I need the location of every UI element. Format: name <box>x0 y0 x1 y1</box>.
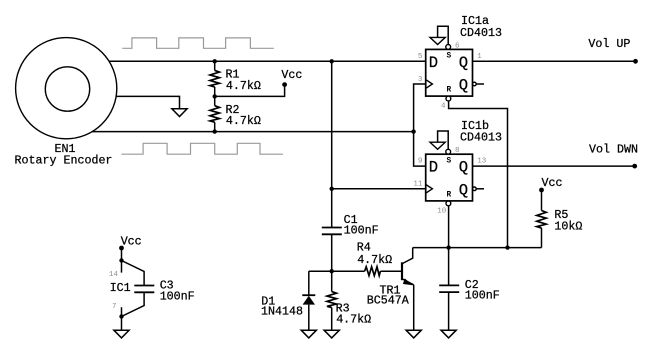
IC1 pin7 stub <box>121 307 123 316</box>
ground (TR1 emitter) <box>406 330 421 338</box>
svg-text:10: 10 <box>437 208 447 216</box>
svg-text:5: 5 <box>418 53 423 61</box>
label R4 4.7k <box>357 240 392 266</box>
svg-text:1: 1 <box>477 53 482 61</box>
flip-flop IC1a CD4013 body <box>426 49 473 96</box>
capacitor C2 <box>439 248 459 331</box>
wire IC1a Q to Vol UP <box>473 60 636 62</box>
svg-text:Vcc: Vcc <box>281 68 302 82</box>
Vcc terminal (pull-up) <box>281 68 302 87</box>
label C1 100nF <box>344 213 379 238</box>
waveform channel B (gray pulses bottom) <box>122 143 284 154</box>
svg-text:Q: Q <box>459 54 468 72</box>
junction node/C2/R10 <box>446 245 450 249</box>
label IC1b CD4013 <box>460 119 502 145</box>
junction pin14 node <box>119 258 123 262</box>
wire pin7 node to ground <box>121 317 123 331</box>
junction at IC1b clock branch <box>330 187 334 191</box>
IC1b set-tie ground flag <box>430 131 448 150</box>
svg-text:R: R <box>447 192 452 200</box>
svg-text:Q: Q <box>459 159 468 177</box>
IC1b S input bubble (pin 8) <box>446 149 451 154</box>
wire IC1a clock pin3 / IC1b D pin9 <box>414 84 426 166</box>
rotary encoder EN1 body <box>16 38 117 139</box>
svg-text:9: 9 <box>418 158 423 166</box>
wire encoder B output <box>92 131 414 133</box>
diode D1 1N4148 <box>302 271 315 330</box>
wire Vcc to pin14 node <box>121 248 123 261</box>
svg-text:6: 6 <box>455 42 460 50</box>
svg-text:11: 11 <box>413 181 423 189</box>
wire encoder common to ground <box>116 96 180 108</box>
ground (R3) <box>324 330 339 338</box>
svg-text:4.7kΩ: 4.7kΩ <box>226 114 261 128</box>
ground (IC1 pin7) <box>114 330 129 338</box>
terminal Vol UP <box>588 37 637 64</box>
junction top wire / R1 <box>213 59 217 63</box>
svg-text:D: D <box>429 54 438 72</box>
wire C1 bottom to node <box>331 234 333 271</box>
svg-text:Q: Q <box>459 181 468 199</box>
wire pin14 node to C3 <box>122 261 145 286</box>
svg-text:4.7kΩ: 4.7kΩ <box>336 312 371 326</box>
svg-text:100nF: 100nF <box>344 224 379 238</box>
svg-text:CD4013: CD4013 <box>460 131 502 145</box>
ground (C2) <box>441 330 456 338</box>
transistor TR1 BC547A <box>402 248 414 331</box>
svg-text:Vol UP: Vol UP <box>588 37 630 51</box>
svg-text:Vol DWN: Vol DWN <box>589 142 638 156</box>
junction channel B / clock vertical <box>411 129 415 133</box>
svg-text:100nF: 100nF <box>160 289 195 303</box>
resistor R4 <box>365 267 402 276</box>
resistor R2 <box>210 96 219 131</box>
label EN1 <box>55 142 76 156</box>
svg-text:R: R <box>447 87 452 95</box>
junction channel A branch <box>330 59 334 63</box>
IC1a R input bubble (pin 4) <box>446 96 451 101</box>
label R5 10k <box>554 208 582 233</box>
svg-text:D: D <box>429 159 438 177</box>
junction node/R4pin <box>505 245 509 249</box>
svg-text:4.7kΩ: 4.7kΩ <box>357 253 392 267</box>
svg-text:13: 13 <box>477 158 487 166</box>
IC1a S input bubble (pin 6) <box>446 45 451 50</box>
label R2 4.7k <box>226 103 261 128</box>
label IC1a CD4013 <box>460 14 502 40</box>
wire C3 to pin7 node <box>122 292 145 316</box>
svg-text:14: 14 <box>109 271 119 279</box>
IC1b pin numbers <box>413 147 486 215</box>
ground (encoder common) <box>172 109 187 117</box>
Vcc terminal (R5) <box>539 176 562 193</box>
capacitor C1 <box>322 228 342 235</box>
label D1 1N4148 <box>261 294 303 318</box>
junction bottom node <box>330 269 334 273</box>
IC1b Qbar bubble and stub <box>473 187 484 191</box>
capacitor C3 <box>134 286 154 293</box>
wire R1/R2 node to Vcc stub <box>215 87 285 97</box>
flip-flop IC1b CD4013 body <box>426 154 473 201</box>
label IC1 <box>110 281 131 295</box>
junction R1/R2 mid node <box>213 94 217 98</box>
waveform channel A (gray pulses top) <box>122 38 273 48</box>
svg-text:4.7kΩ: 4.7kΩ <box>226 79 261 93</box>
resistor R3 <box>327 271 336 330</box>
resistor R5 <box>537 190 546 248</box>
svg-text:S: S <box>447 158 452 166</box>
IC1 power: Vcc terminal <box>119 235 142 251</box>
wire to IC1b clock pin 11 <box>332 188 426 190</box>
IC1b R input bubble (pin 10) <box>446 201 451 206</box>
svg-text:CD4013: CD4013 <box>460 26 502 40</box>
junction bottom wire / R2 <box>213 129 217 133</box>
resistor R1 <box>210 61 219 96</box>
label R3 4.7k <box>336 302 372 327</box>
svg-text:100nF: 100nF <box>465 288 500 302</box>
svg-text:IC1: IC1 <box>110 281 131 295</box>
svg-text:10kΩ: 10kΩ <box>554 220 582 234</box>
terminal Vol DWN <box>589 142 638 168</box>
wire IC1b Q to Vol DWN <box>473 165 635 167</box>
label TR1 BC547A <box>367 284 409 308</box>
junction pin7 node <box>119 314 123 318</box>
ground (D1) <box>301 330 316 338</box>
svg-text:7: 7 <box>112 303 117 311</box>
label C3 100nF <box>160 278 195 303</box>
svg-text:Vcc: Vcc <box>121 235 142 249</box>
wire IC1b R pin10 to node <box>448 205 450 247</box>
wire branch from channel A down to C1 <box>331 61 333 227</box>
wire bottom node row (D1/R3/R4) <box>309 270 365 272</box>
wire collector node row <box>413 247 542 249</box>
label R1 4.7k <box>226 67 261 92</box>
IC1a set-tie ground flag <box>430 26 448 45</box>
svg-text:BC547A: BC547A <box>367 294 409 308</box>
svg-text:1N4148: 1N4148 <box>261 305 303 319</box>
IC1a Qbar bubble and stub <box>473 82 484 86</box>
svg-text:Q: Q <box>459 77 468 95</box>
label Rotary Encoder <box>15 153 113 167</box>
IC1a pin numbers <box>418 42 482 110</box>
svg-text:8: 8 <box>455 147 460 155</box>
label C2 100nF <box>465 278 500 303</box>
IC1 pin14 stub <box>121 261 123 273</box>
svg-text:Vcc: Vcc <box>542 176 563 190</box>
svg-text:4: 4 <box>441 103 446 111</box>
svg-text:S: S <box>447 53 452 61</box>
IC1 pin numbers 14 and 7 <box>109 271 119 311</box>
svg-text:Rotary Encoder: Rotary Encoder <box>15 153 113 167</box>
wire encoder A output to IC1a D <box>109 60 426 62</box>
wire IC1a R pin4 to node <box>449 101 508 248</box>
svg-text:3: 3 <box>418 76 423 84</box>
